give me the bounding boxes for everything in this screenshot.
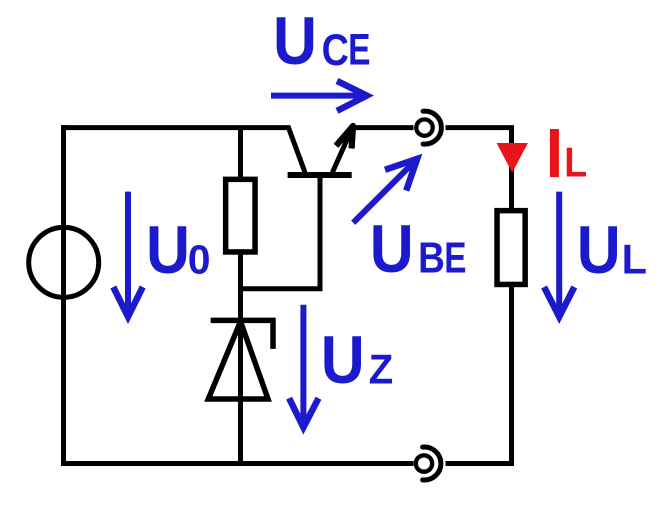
svg-text:C: C: [322, 25, 349, 75]
svg-text:U: U: [321, 322, 365, 398]
svg-text:L: L: [622, 236, 647, 283]
svg-text:E: E: [444, 234, 466, 282]
svg-text:U: U: [370, 211, 414, 287]
svg-text:I: I: [546, 115, 563, 193]
svg-text:B: B: [418, 233, 445, 283]
svg-text:U: U: [577, 212, 621, 288]
svg-text:U: U: [273, 3, 317, 79]
svg-text:U: U: [146, 212, 190, 288]
svg-text:0: 0: [188, 237, 211, 283]
svg-text:L: L: [564, 140, 587, 186]
svg-text:E: E: [348, 25, 370, 75]
svg-text:Z: Z: [369, 346, 394, 393]
